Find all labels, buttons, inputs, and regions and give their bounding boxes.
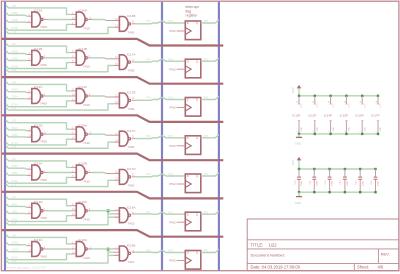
svg-text:IP05: IP05 — [12, 50, 19, 54]
junction: GND rail dot at IC17P — [377, 133, 379, 135]
svg-text:IP06: IP06 — [12, 11, 19, 15]
svg-text:14: 14 — [297, 101, 299, 103]
svg-text:IC12C: IC12C — [34, 85, 44, 89]
svg-text:7400: 7400 — [40, 254, 47, 258]
svg-text:100N: 100N — [347, 180, 349, 186]
wire: IC12A output to IC14A input — [43, 19, 76, 21]
svg-text:IP2: IP2 — [168, 172, 173, 176]
wire: IC14C output to IC17B input — [87, 92, 119, 97]
junction: dot at IC16B input net — [107, 248, 110, 251]
wire: net /C4 from bus to IC17B input — [6, 104, 120, 110]
wire: thick row divider net 3 — [2, 115, 223, 122]
wire: thick row divider net 6 — [2, 230, 223, 237]
svg-text:/A6: /A6 — [12, 4, 17, 8]
svg-text:D: D — [187, 174, 189, 178]
svg-text:TITLE:: TITLE: — [251, 242, 264, 247]
svg-text:D: D — [187, 98, 189, 102]
pin numbers IC17C — [115, 132, 135, 143]
wire: net IP0 from IC16B output into middle bus — [132, 249, 162, 253]
wire: net /A0 from bus to IC16C pin — [6, 233, 76, 244]
wire: IC13C output to IC16C input — [43, 248, 76, 250]
svg-text:GND: GND — [380, 127, 382, 132]
svg-text:VCC: VCC — [380, 103, 382, 108]
pin numbers IC13C — [28, 242, 45, 252]
junction: VCC rail dot at C11 — [313, 168, 315, 170]
svg-text:IC17C: IC17C — [127, 129, 137, 133]
wire: thick row divider net 2 — [2, 77, 223, 84]
wire: net /A4 from bus to IC14C pin — [6, 80, 76, 91]
wire: net IP0 from middle bus to latch D input — [162, 249, 185, 253]
svg-text:OD6: OD6 — [12, 18, 19, 22]
svg-text:7400: 7400 — [128, 30, 135, 34]
label: C15 designator and 100N value — [371, 180, 380, 186]
wire: VCC rail (lower group) — [299, 168, 376, 170]
wire: net OD2 from bus to IC13A input — [6, 171, 32, 175]
svg-text:Sheet:: Sheet: — [357, 265, 369, 270]
svg-text:GND: GND — [301, 127, 303, 132]
junction: VCC rail dot at IC16P — [361, 95, 363, 97]
wire: net IP03 from bus to IC12D input — [6, 126, 32, 131]
junction: VCC rail dot at IC17P — [377, 95, 379, 97]
label: IC13C designator and value — [34, 238, 47, 258]
junction: GND rail dot at IC12P — [298, 133, 300, 135]
pin numbers IC15A — [72, 126, 75, 140]
flip-flop: interrupt flag latch, row 3 — [185, 98, 201, 117]
svg-text:14: 14 — [360, 101, 362, 103]
label: IC17D designator and value — [127, 167, 137, 187]
svg-text:IP02: IP02 — [12, 164, 19, 168]
svg-text:IC15P: IC15P — [340, 114, 348, 118]
junction: VCC rail dot at IC15P — [345, 95, 347, 97]
svg-text:IC14B: IC14B — [78, 47, 87, 51]
pin numbers IC17B — [115, 93, 135, 104]
label: IC13A designator and value — [34, 162, 47, 182]
wire: net IP1 latch Q output to right bus — [201, 210, 219, 214]
junction: VCC rail dot at IC13P — [314, 95, 316, 97]
wire: net IP2 from IC17D output into middle bus — [132, 172, 162, 177]
junction: GND rail dot at IC16P — [361, 133, 363, 135]
svg-text:7400: 7400 — [40, 63, 47, 67]
ground symbol: GND (upper group) — [295, 134, 302, 146]
svg-text:PW2: PW2 — [169, 106, 176, 110]
svg-text:7410: 7410 — [83, 179, 90, 183]
svg-text:/C1: /C1 — [12, 221, 17, 225]
junction: GND rail dot at C15 — [374, 191, 376, 193]
svg-text:IP6: IP6 — [168, 19, 173, 23]
svg-text:Document Number:: Document Number: — [251, 252, 286, 257]
svg-text:7410: 7410 — [128, 260, 135, 264]
svg-text:7400: 7400 — [128, 69, 135, 73]
svg-text:IC17B: IC17B — [127, 91, 136, 95]
wire: net IP6 from IC13B output into middle bus — [132, 19, 162, 24]
pin numbers IC16C — [72, 240, 75, 254]
junction: VCC rail dot at C10 — [298, 168, 300, 170]
wire: net /C6 from bus to IC13B input — [6, 27, 120, 33]
wire: net IP12 from bus to IC15B lower input — [6, 177, 76, 183]
wire: net IP11 from bus to IC15C lower input — [6, 216, 76, 222]
svg-text:interrupt flag register - 1i22: interrupt flag register - 1i22.sch 4/6 — [7, 266, 46, 269]
wire: net IP2 latch Q output to right bus — [201, 172, 219, 176]
flip-flop: interrupt flag latch, row 6 — [185, 212, 201, 231]
wire: net /C2 from bus to IC17D input — [6, 180, 120, 186]
svg-text:IP00: IP00 — [12, 241, 19, 245]
svg-text:D: D — [187, 136, 189, 140]
wire: net IP0 latch Q output to right bus — [201, 249, 219, 253]
svg-text:7410: 7410 — [83, 26, 90, 30]
svg-text:/C3: /C3 — [12, 144, 17, 148]
svg-text:IC15B: IC15B — [78, 162, 87, 166]
svg-text:VCC: VCC — [317, 103, 319, 108]
wire: net IP15 from bus to IC14B lower input — [6, 63, 76, 69]
svg-text:IC13C: IC13C — [34, 238, 44, 242]
svg-text:IP1: IP1 — [146, 210, 151, 214]
power pins: IC12P supply gate — [297, 96, 303, 134]
wire: net OD1 from bus to IC13D input — [6, 209, 32, 213]
wire: IC16C output to IC16B input — [87, 245, 119, 249]
svg-text:IC12P: IC12P — [292, 114, 300, 118]
svg-text:/A1: /A1 — [12, 195, 17, 199]
label: IC16C designator and value — [78, 238, 90, 260]
svg-text:IP5: IP5 — [146, 58, 151, 62]
svg-text:7400: 7400 — [128, 183, 135, 187]
pin numbers IC14A — [72, 11, 75, 25]
svg-text:IP2: IP2 — [204, 172, 209, 176]
nand gate IC12B (7400) — [32, 50, 43, 65]
svg-text:/C6: /C6 — [12, 30, 17, 34]
junction: VCC rail dot at IC12P — [298, 95, 300, 97]
wire: net /C0 from bus to IC16B input — [6, 249, 120, 263]
svg-text:PW2: PW2 — [169, 29, 176, 33]
svg-text:IP6: IP6 — [204, 19, 209, 23]
label: IC12B designator and value — [34, 47, 47, 67]
svg-text:GND: GND — [295, 201, 301, 205]
svg-text:7: 7 — [313, 131, 315, 132]
wire: IC14A output to IC13B input — [87, 16, 119, 21]
svg-text:7410: 7410 — [83, 65, 90, 69]
label: IC17B designator and value — [127, 91, 136, 111]
pin numbers IC13D — [28, 204, 45, 214]
bus: right output bus — [218, 2, 220, 271]
wire: net /A3 from bus to IC15A pin — [6, 119, 76, 130]
wire: net PW2 clock to latch row 2 — [169, 68, 185, 72]
svg-text:IP01: IP01 — [12, 202, 19, 206]
pin numbers IC13A — [28, 166, 45, 176]
svg-text:7410: 7410 — [83, 218, 90, 222]
svg-text:IP3: IP3 — [146, 134, 151, 138]
svg-text:GND: GND — [333, 127, 335, 132]
svg-text:OD4: OD4 — [12, 95, 19, 99]
svg-text:7400: 7400 — [40, 178, 47, 182]
wire: IC15B output to IC17D input — [87, 169, 119, 174]
svg-text:/A5: /A5 — [12, 42, 17, 46]
svg-text:IC17A: IC17A — [127, 53, 137, 57]
junction: GND rail dot at C10 — [298, 191, 300, 193]
junction: dot at IC16A input net — [107, 209, 110, 212]
svg-text:IC17D: IC17D — [127, 167, 137, 171]
svg-text:IP2: IP2 — [146, 172, 151, 176]
nand gate IC13A (7400) — [32, 165, 43, 180]
wire: net /A5 from bus to IC14B pin — [6, 42, 76, 53]
wire: net PW2 clock to latch row 3 — [169, 106, 185, 110]
label: C14 designator and 100N value — [356, 180, 365, 186]
capacitor C11 (100N) — [312, 169, 316, 192]
wire: IC12B output to IC14B input — [43, 57, 76, 59]
svg-text:7400: 7400 — [40, 25, 47, 29]
junction: GND rail dot at C11 — [313, 191, 315, 193]
bus: middle bus (before flag register) — [161, 2, 163, 271]
svg-text:IP0: IP0 — [146, 249, 151, 253]
svg-text:PW2: PW2 — [169, 259, 176, 263]
pin numbers IC12B — [28, 51, 45, 61]
power pins: IC15P supply gate — [344, 96, 350, 134]
wire: net OD3 from bus to IC12D input — [6, 133, 32, 137]
wire: net IP1 from middle bus to latch D input — [162, 210, 185, 214]
wire: GND rail (lower group) — [299, 191, 376, 193]
power symbol: VCC supply (lower group) — [291, 157, 301, 169]
label: IC13D designator and value — [34, 200, 47, 220]
svg-text:REV:: REV: — [381, 251, 390, 256]
svg-text:OD1: OD1 — [12, 209, 19, 213]
flip-flop: interrupt flag latch, row 1 — [185, 21, 201, 40]
label: IC12D designator and value — [34, 123, 47, 143]
label: C12 designator and 100N value — [325, 180, 334, 186]
power pins: IC17P supply gate — [376, 96, 382, 134]
svg-text:IC16A: IC16A — [127, 205, 137, 209]
wire: IC13A output to IC15B input — [43, 172, 76, 174]
svg-text:IP5: IP5 — [204, 58, 209, 62]
svg-text:IC12D: IC12D — [34, 123, 44, 127]
flip-flop: interrupt flag latch, row 7 — [185, 251, 201, 270]
label: interrupt flag register heading — [186, 5, 199, 18]
wire: net IP3 from IC17C output into middle bus — [132, 134, 162, 139]
svg-text:IP4: IP4 — [168, 96, 173, 100]
label: TITLE field — [251, 242, 278, 247]
flip-flop: interrupt flag latch, row 2 — [185, 59, 201, 78]
svg-text:VCC: VCC — [291, 87, 295, 93]
svg-text:IC13P: IC13P — [308, 114, 316, 118]
power symbol: VCC supply (upper group) — [291, 85, 301, 96]
junction: GND rail dot at IC15P — [345, 133, 347, 135]
svg-text:OD5: OD5 — [12, 57, 19, 61]
wire: IC12D output to IC15A input — [43, 133, 76, 135]
wire: IC15A output to IC17C input — [87, 131, 119, 136]
svg-text:7400: 7400 — [128, 107, 135, 111]
pin numbers IC14B — [72, 49, 74, 63]
label: C11 designator and 100N value — [310, 180, 319, 186]
power pins: IC14P supply gate — [329, 96, 335, 134]
label: IC14C designator and value — [78, 85, 90, 107]
nand gate IC14C (7410) — [76, 89, 87, 104]
svg-text:IC13D: IC13D — [34, 200, 44, 204]
svg-text:/C2: /C2 — [12, 183, 17, 187]
svg-text:OD3: OD3 — [12, 133, 19, 137]
svg-text:7400: 7400 — [128, 145, 135, 149]
svg-text:IP3: IP3 — [168, 134, 173, 138]
svg-text:/A3: /A3 — [12, 119, 17, 123]
label: IC14A designator and value — [78, 9, 90, 31]
wire: net IP1 from IC16A output into middle bus — [132, 210, 162, 214]
svg-text:IC12B: IC12B — [34, 47, 43, 51]
wire: net /C5 from bus to IC17A input — [6, 66, 120, 72]
wire: IC15C output to IC16A input — [87, 207, 119, 211]
junction: GND rail dot at C14 — [359, 191, 361, 193]
svg-text:GND: GND — [295, 142, 301, 146]
wire: net OD4 from bus to IC12C input — [6, 95, 32, 99]
label: IC17A designator and value — [127, 53, 137, 73]
bus: left input bus — [4, 2, 6, 271]
wire: thick row divider net 1 — [2, 39, 223, 46]
svg-text:IP6: IP6 — [146, 19, 151, 23]
svg-text:4/6: 4/6 — [378, 265, 384, 270]
svg-text:/C4: /C4 — [12, 106, 17, 110]
wire: net /C1 from bus to IC16A input — [6, 211, 120, 225]
wire: net IP13 from bus to IC15A lower input — [6, 139, 76, 145]
svg-text:100N: 100N — [332, 180, 334, 186]
svg-text:IP04: IP04 — [12, 88, 19, 92]
pin numbers IC16B — [115, 246, 135, 257]
wire: net IP02 from bus to IC13A input — [6, 164, 32, 169]
wire: net IP14 from bus to IC14C lower input — [6, 101, 76, 107]
label: IC16A designator and value — [127, 205, 137, 225]
svg-text:/A4: /A4 — [12, 80, 17, 84]
junction: VCC rail dot at C12 — [328, 168, 330, 170]
title block frame — [247, 219, 399, 271]
svg-text:IC16P: IC16P — [355, 114, 363, 118]
svg-text:register: register — [186, 14, 199, 18]
svg-text:/A0: /A0 — [12, 233, 17, 237]
wire: net OD0 from bus to IC13C input — [6, 248, 32, 252]
nand gate IC14B (7410) — [76, 50, 87, 65]
capacitor C12 (100N) — [328, 169, 332, 192]
junction: GND rail dot at IC13P — [314, 133, 316, 135]
wire: net IP3 from middle bus to latch D input — [162, 134, 185, 138]
wire: net IP4 latch Q output to right bus — [201, 96, 219, 100]
svg-text:1i22: 1i22 — [269, 242, 278, 247]
wire: net IP06 from bus to IC12A input — [6, 11, 32, 16]
svg-text:PW2: PW2 — [169, 182, 176, 186]
label: IC15B designator and value — [78, 162, 90, 184]
svg-text:IC17P: IC17P — [371, 114, 379, 118]
svg-text:7400: 7400 — [40, 216, 47, 220]
wire: net IP5 latch Q output to right bus — [201, 58, 219, 62]
label: IC12A designator and value — [34, 9, 47, 29]
wire: net IP04 from bus to IC12C input — [6, 88, 32, 93]
wire: net PW2 clock to latch row 7 — [169, 259, 185, 263]
flip-flop: interrupt flag latch, row 5 — [185, 174, 201, 193]
pin numbers IC16A — [115, 208, 135, 219]
wire: net PW2 clock to latch row 6 — [169, 220, 185, 224]
label: IC17C designator and value — [127, 129, 137, 149]
power pins: IC13P supply gate — [313, 96, 319, 134]
svg-text:OD2: OD2 — [12, 171, 19, 175]
svg-text:GND: GND — [349, 127, 351, 132]
wire: net IP05 from bus to IC12B input — [6, 50, 32, 55]
svg-text:VCC: VCC — [349, 103, 351, 108]
svg-text:IP1: IP1 — [168, 210, 173, 214]
svg-text:VCC: VCC — [291, 159, 295, 165]
svg-text:IP03: IP03 — [12, 126, 19, 130]
ground symbol: GND (lower group) — [295, 192, 302, 205]
label: IC14B designator and value — [78, 47, 90, 69]
svg-text:IC12A: IC12A — [34, 9, 44, 13]
svg-text:14: 14 — [344, 101, 346, 103]
wire: net IP01 from bus to IC13D input — [6, 202, 32, 207]
pin numbers IC13B — [115, 17, 135, 28]
wire: net IP5 from middle bus to latch D input — [162, 58, 185, 62]
wire: net PW2 clock to latch row 1 — [169, 29, 185, 33]
wire: thick row divider net 4 — [2, 154, 223, 161]
svg-text:100N: 100N — [316, 180, 318, 186]
wire: net IP4 from middle bus to latch D input — [162, 96, 185, 100]
svg-text:7: 7 — [376, 131, 378, 132]
svg-text:7: 7 — [329, 131, 331, 132]
capacitor C13 (100N) — [343, 169, 347, 192]
pin numbers IC15C — [72, 202, 75, 216]
wire: IC12C output to IC14C input — [43, 95, 76, 97]
svg-text:7410: 7410 — [83, 103, 90, 107]
svg-text:IC15A: IC15A — [78, 123, 88, 127]
label: IC16B designator and value — [127, 244, 136, 264]
svg-text:14: 14 — [313, 101, 315, 103]
svg-text:100N: 100N — [378, 180, 380, 186]
wire: net IP10 from bus to IC16C lower input — [6, 254, 76, 260]
svg-text:14: 14 — [329, 101, 331, 103]
pin numbers IC12A — [28, 13, 45, 23]
junction: VCC rail dot at C15 — [374, 168, 376, 170]
junction: GND rail dot at IC14P — [329, 133, 331, 135]
svg-text:7: 7 — [344, 131, 346, 132]
nand gate IC17D (7400) — [119, 170, 130, 185]
svg-text:VCC: VCC — [333, 103, 335, 108]
svg-text:PW2: PW2 — [169, 220, 176, 224]
svg-text:/A2: /A2 — [12, 157, 17, 161]
wire: net /A2 from bus to IC15B pin — [6, 157, 76, 168]
svg-text:IC14A: IC14A — [78, 9, 88, 13]
svg-text:IP0: IP0 — [168, 249, 173, 253]
junction: GND rail dot at C13 — [344, 191, 346, 193]
wire: net IP16 from bus to IC14A lower input — [6, 24, 76, 30]
svg-text:GND: GND — [317, 127, 319, 132]
svg-text:/C0: /C0 — [12, 259, 17, 263]
svg-text:100N: 100N — [362, 180, 364, 186]
svg-text:14: 14 — [376, 101, 378, 103]
svg-text:IP0: IP0 — [204, 249, 209, 253]
nand gate IC15C (7410) — [76, 203, 87, 218]
svg-text:7: 7 — [360, 131, 362, 132]
svg-text:D: D — [187, 60, 189, 64]
svg-text:OD0: OD0 — [12, 248, 19, 252]
power pins: IC16P supply gate — [360, 96, 366, 134]
svg-text:GND: GND — [364, 127, 366, 132]
svg-text:IP1: IP1 — [204, 210, 209, 214]
svg-text:IC13B: IC13B — [127, 14, 136, 18]
pin numbers IC12D — [28, 127, 47, 137]
wire: net IP2 from middle bus to latch D input — [162, 172, 185, 176]
svg-text:D: D — [187, 212, 189, 216]
nand gate IC15B (7410) — [76, 165, 87, 180]
svg-text:PW2: PW2 — [169, 68, 176, 72]
label: IC13B designator and value — [127, 14, 136, 34]
wire: net IP6 from middle bus to latch D input — [162, 19, 185, 23]
flip-flop: interrupt flag latch, row 4 — [185, 136, 201, 155]
svg-text:D: D — [187, 251, 189, 255]
wire: net PW2 clock to latch row 4 — [169, 144, 185, 148]
svg-text:100N: 100N — [301, 180, 303, 186]
label: IC15A designator and value — [78, 123, 90, 145]
junction: VCC rail dot at C13 — [344, 168, 346, 170]
wire: net OD5 from bus to IC12B input — [6, 57, 32, 61]
svg-text:VCC: VCC — [301, 103, 303, 108]
